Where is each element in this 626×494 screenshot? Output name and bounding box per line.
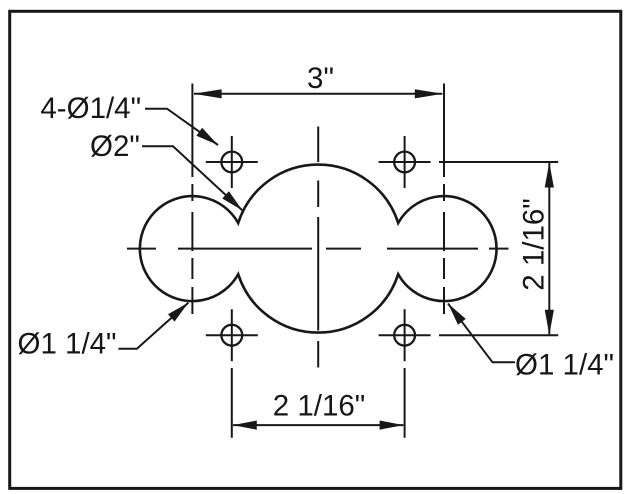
leader right dia-1-1/4in: arrowhead [448,304,466,325]
dimension 2-1/16in bottom: left extension line [231,368,233,438]
leader left dia-1-1/4in: leader line [118,303,188,349]
part outline: union of center 2in circle and two 1-1/4in side circles [140,165,497,333]
svg-text:Ø1 1/4": Ø1 1/4" [515,349,614,382]
svg-text:2 1/16": 2 1/16" [517,198,550,291]
centerline: horizontal through all circles [127,248,156,250]
hole 3: 1/4in bolt hole circle [221,325,242,346]
hole 2: 1/4in bolt hole circle [394,152,415,173]
hole 1 crosshair [206,161,258,163]
svg-text:Ø2": Ø2" [90,130,140,163]
dimension 2-1/16in vertical: top arrowhead [545,163,554,188]
dimension 3in: dimension line [194,93,442,95]
leader 4-dia-1/4in: arrowhead [196,128,218,145]
svg-text:2 1/16": 2 1/16" [273,390,366,423]
hole 3 crosshair [206,334,258,336]
dimension 3in: left arrowhead [194,89,222,98]
dimension 3in: right arrowhead [415,89,443,98]
leader 4-dia-1/4in: leader line [145,109,218,145]
leader dia-2in: arrowhead [222,191,242,210]
hole 4: 1/4in bolt hole circle [394,325,415,346]
svg-text:4-Ø1/4": 4-Ø1/4" [40,92,141,125]
dimension 2-1/16in bottom: right extension line [404,368,406,438]
dimension 2-1/16in bottom: dimension line [233,424,403,426]
centerline: central circle vertical [317,127,319,163]
hole 1: 1/4in bolt hole circle [221,152,242,173]
svg-text:Ø1 1/4": Ø1 1/4" [18,328,117,361]
dimension 2-1/16in vertical: dimension line [548,163,550,334]
dimension 2-1/16in bottom: left arrowhead [233,421,257,430]
svg-text:3": 3" [307,62,334,95]
dimension 2-1/16in vertical: bottom extension line [439,334,558,336]
centerline: right circle vertical / extension line for 3in dim [443,84,445,178]
leader left dia-1-1/4in: arrowhead [168,303,188,322]
hole 2 crosshair [379,161,431,163]
dimension 2-1/16in bottom: right arrowhead [380,421,404,430]
centerline: left circle vertical / extension line for 3in dim [191,84,193,178]
leader right dia-1-1/4in: leader line [448,304,515,363]
leader dia-2in: leader line [142,146,243,210]
hole 4 crosshair [379,334,431,336]
dimension 2-1/16in vertical: top extension line [439,161,558,163]
dimension 2-1/16in vertical: bottom arrowhead [545,310,554,335]
